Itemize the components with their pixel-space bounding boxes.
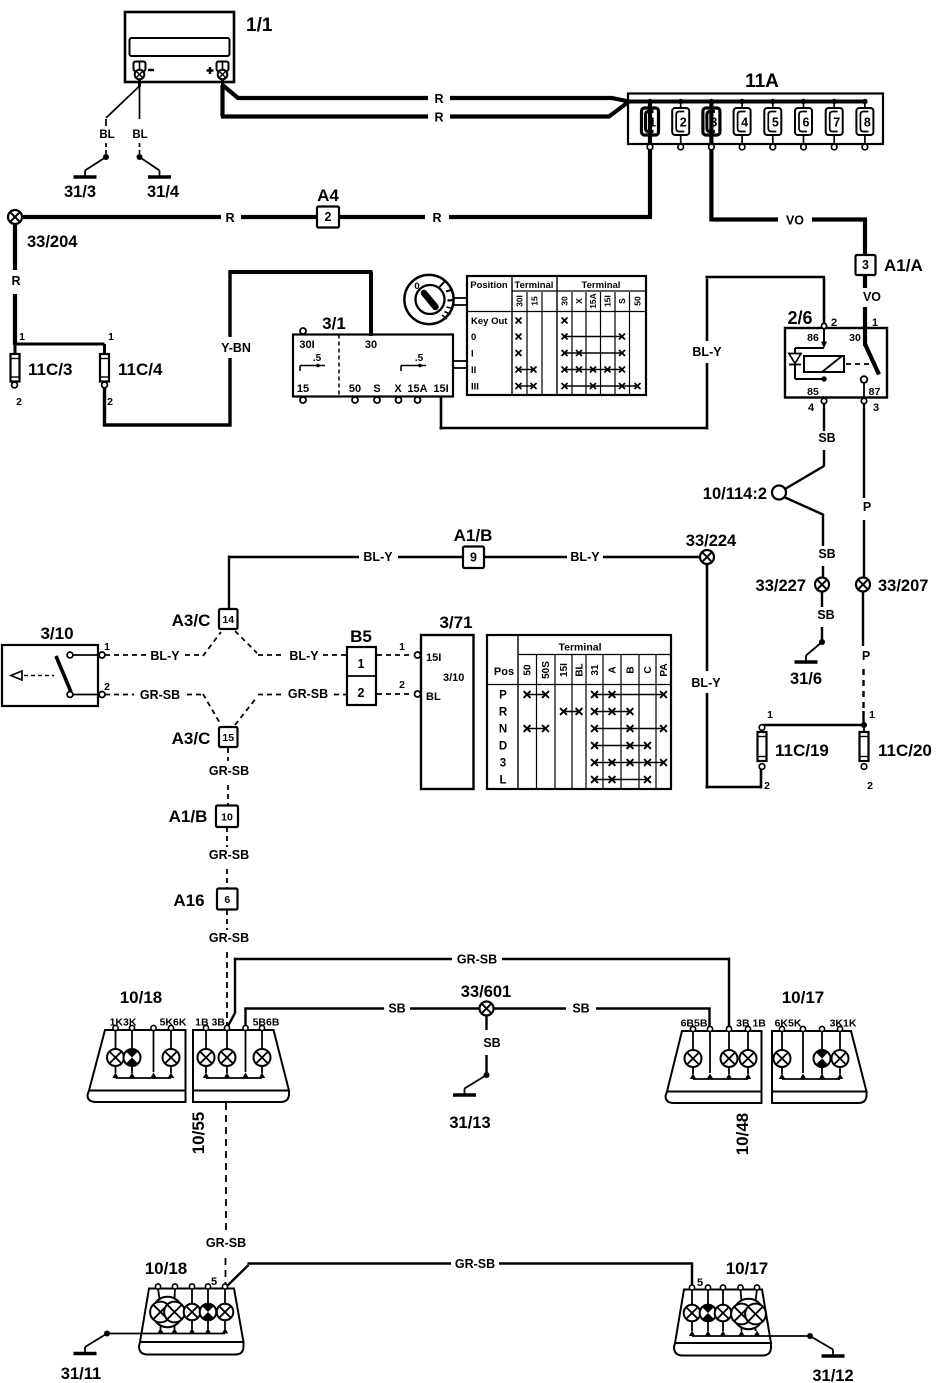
lamp 5 in rear 10/18 [217, 1304, 234, 1321]
lamp 3 in rear 10/17 [715, 1305, 732, 1322]
fuse 11C/4 [100, 331, 163, 408]
lamp 1 in rear 10/17 [684, 1305, 701, 1322]
svg-text:VO: VO [863, 290, 881, 304]
wire GR-SB 10/55 down to rear 10/18 (dashed) [206, 1103, 246, 1285]
svg-text:11C/3: 11C/3 [28, 360, 72, 379]
svg-text:6: 6 [224, 894, 230, 906]
connector A3/C pin 15 [172, 727, 238, 748]
svg-text:.5: .5 [415, 353, 424, 364]
fuse 6 in 11A [795, 99, 812, 150]
svg-text:GR-SB: GR-SB [455, 1257, 495, 1271]
svg-text:31/4: 31/4 [147, 183, 180, 201]
svg-text:10/48: 10/48 [733, 1113, 752, 1156]
svg-text:86: 86 [807, 332, 819, 344]
svg-text:SB: SB [388, 1002, 405, 1016]
ground 31/3 [64, 154, 109, 201]
svg-text:30: 30 [365, 339, 377, 351]
svg-text:1: 1 [649, 116, 656, 130]
svg-text:1: 1 [358, 657, 365, 671]
svg-text:11A: 11A [745, 71, 779, 92]
svg-text:1: 1 [108, 331, 114, 343]
svg-text:X: X [394, 383, 402, 395]
fuse 1 in 11A [642, 99, 659, 150]
svg-text:33/601: 33/601 [461, 983, 511, 1001]
svg-text:2: 2 [107, 396, 113, 408]
svg-text:10/17: 10/17 [782, 988, 825, 1007]
svg-text:1: 1 [872, 317, 878, 329]
svg-text:2: 2 [104, 681, 110, 693]
wire GR-SB linking rear clusters [225, 1257, 693, 1288]
svg-text:1: 1 [399, 641, 405, 653]
svg-text:15A: 15A [407, 383, 427, 395]
svg-text:Y-BN: Y-BN [221, 341, 251, 355]
svg-text:BL-Y: BL-Y [150, 649, 180, 663]
twin lamp housing in rear 10/17 [733, 1299, 763, 1329]
svg-text:SB: SB [483, 1036, 500, 1050]
svg-text:SB: SB [818, 431, 835, 445]
svg-text:31/11: 31/11 [61, 1365, 101, 1383]
svg-text:15: 15 [530, 296, 540, 306]
svg-text:0: 0 [414, 281, 419, 292]
wire VO fuse 3 to relay via A1/A [711, 214, 881, 329]
svg-text:S: S [373, 383, 380, 395]
svg-text:2: 2 [16, 396, 22, 408]
svg-text:30I: 30I [299, 339, 314, 351]
battery 1/1 [125, 12, 273, 87]
svg-text:11C/20: 11C/20 [878, 741, 932, 760]
wire R from 33/204 down [11, 224, 20, 345]
svg-text:5: 5 [211, 1276, 217, 1288]
svg-text:P: P [863, 500, 871, 514]
svg-text:P: P [499, 690, 507, 702]
svg-text:BL-Y: BL-Y [570, 550, 600, 564]
svg-text:31/3: 31/3 [64, 183, 96, 201]
gear selector 3/71 [421, 613, 474, 789]
lamp cluster 10/18 housing [88, 988, 187, 1102]
connector A3/C pin 14 [172, 609, 238, 630]
lamp 3 in rear 10/18 [184, 1304, 201, 1321]
svg-text:BL: BL [132, 129, 147, 141]
svg-text:3/10: 3/10 [443, 672, 464, 684]
lamp 1B in 10/55 [198, 1049, 215, 1066]
svg-text:33/207: 33/207 [878, 577, 928, 595]
svg-text:.5: .5 [313, 353, 322, 364]
wire R battery plus upper [223, 85, 630, 106]
splice 33/207 [856, 577, 928, 595]
ground 31/11 [61, 1331, 110, 1383]
svg-text:GR-SB: GR-SB [206, 1236, 246, 1250]
svg-text:Pos: Pos [494, 666, 514, 678]
wire BL-Y 3/10 pin1 to B5 pin1 (dashed) [105, 631, 346, 663]
svg-text:50: 50 [523, 664, 534, 676]
svg-text:BL-Y: BL-Y [363, 550, 393, 564]
lamp cluster 10/48 housing [666, 1018, 767, 1156]
svg-text:33/227: 33/227 [756, 577, 806, 595]
svg-text:15A: 15A [588, 293, 598, 309]
fuse 11C/20 [860, 709, 932, 792]
svg-text:3: 3 [710, 116, 717, 130]
wire GR-SB A1/B:10 to A16:6 (dashed) [209, 827, 249, 888]
svg-text:11C/19: 11C/19 [775, 741, 829, 760]
fuse 3 in 11A [703, 99, 720, 150]
svg-text:A16: A16 [173, 891, 204, 910]
svg-text:D: D [499, 741, 507, 753]
connector 10/114:2 [703, 485, 786, 503]
lamp 1 in rear 10/18 [150, 1302, 171, 1323]
lamp 2 in rear 10/18 [164, 1302, 185, 1323]
svg-text:N: N [499, 724, 507, 736]
wire SB to ground 31/6 [817, 592, 834, 642]
svg-text:2: 2 [867, 780, 873, 792]
wire SB relay pin 4 down [785, 404, 836, 489]
svg-text:A1/B: A1/B [169, 807, 208, 826]
splice 33/601 [461, 983, 511, 1016]
svg-text:31/6: 31/6 [790, 670, 822, 688]
svg-text:5B6B: 5B6B [253, 1017, 280, 1029]
wire P to fuse 11C/20 [862, 592, 870, 726]
svg-text:1: 1 [19, 331, 25, 343]
svg-text:Terminal: Terminal [515, 280, 554, 291]
lamp 6B in 10/48 [685, 1050, 702, 1067]
lamp 6K in 10/18 [163, 1049, 180, 1066]
svg-text:3: 3 [862, 258, 869, 272]
svg-text:A: A [608, 666, 619, 673]
wire link 11C/19 - 11C/20 [762, 722, 867, 728]
wire SB to splice 33/227 [784, 497, 836, 578]
svg-text:BL-Y: BL-Y [289, 649, 319, 663]
wire B5 pin1 to 3/71 (dashed) [377, 641, 421, 658]
fuse 5 in 11A [764, 99, 781, 150]
lamp 6K in 10/17 [774, 1050, 791, 1067]
svg-text:II: II [471, 365, 476, 376]
svg-text:30I: 30I [515, 295, 525, 307]
svg-text:A1/B: A1/B [454, 526, 493, 545]
svg-text:10/18: 10/18 [145, 1259, 188, 1278]
svg-text:2: 2 [358, 686, 365, 700]
twin lamp housing in rear 10/18 [152, 1297, 182, 1327]
svg-text:SB: SB [818, 547, 835, 561]
svg-text:BL: BL [99, 129, 114, 141]
svg-text:R: R [11, 274, 20, 288]
svg-text:1: 1 [869, 709, 875, 721]
svg-text:A3/C: A3/C [172, 611, 211, 630]
svg-text:R: R [225, 211, 234, 225]
svg-text:0: 0 [471, 332, 476, 343]
ground 31/13 [449, 1072, 490, 1132]
lamp 4 in rear 10/17 [731, 1304, 752, 1325]
svg-text:6K5K: 6K5K [775, 1018, 802, 1030]
svg-text:C: C [643, 666, 654, 673]
svg-text:3K1K: 3K1K [830, 1018, 857, 1030]
table 3/71 positions [487, 635, 671, 789]
svg-text:31/12: 31/12 [812, 1367, 853, 1383]
svg-text:33/204: 33/204 [27, 233, 78, 251]
svg-text:BL-Y: BL-Y [691, 676, 721, 690]
svg-text:GR-SB: GR-SB [140, 688, 180, 702]
svg-text:10/55: 10/55 [189, 1112, 208, 1155]
svg-text:31/13: 31/13 [449, 1114, 490, 1132]
svg-text:Terminal: Terminal [582, 280, 621, 291]
svg-text:R: R [432, 211, 441, 225]
svg-text:5: 5 [697, 1277, 703, 1289]
svg-text:15I: 15I [559, 663, 570, 677]
fuse 7 in 11A [826, 99, 843, 150]
connector A1/B pin 10 [169, 806, 238, 828]
svg-text:A4: A4 [317, 186, 339, 205]
svg-text:P: P [862, 649, 870, 663]
svg-text:15: 15 [222, 732, 234, 744]
wire GR-SB A16:6 down to 10/55 (dashed) [209, 910, 249, 1026]
svg-text:8: 8 [864, 116, 871, 130]
ground 31/12 [807, 1333, 854, 1383]
svg-text:Terminal: Terminal [559, 642, 602, 654]
relay 2/6 [785, 308, 887, 414]
svg-text:30: 30 [560, 296, 570, 306]
svg-text:B5: B5 [350, 627, 372, 646]
fuse 11C/19 [758, 709, 829, 792]
ground 31/4 [137, 154, 180, 201]
svg-text:1: 1 [767, 709, 773, 721]
svg-text:3: 3 [873, 402, 879, 414]
wire branch to 11C/4 [15, 343, 105, 346]
svg-text:31: 31 [590, 664, 601, 676]
wire fuse 1 output (thick) [648, 102, 652, 218]
svg-text:7: 7 [833, 116, 840, 130]
svg-text:X: X [574, 298, 584, 304]
svg-text:33/224: 33/224 [686, 532, 737, 550]
wire stubs switch 3/1 to table [453, 361, 467, 368]
svg-text:PA: PA [659, 663, 670, 676]
splice 33/204 [8, 210, 78, 251]
svg-text:3/1: 3/1 [322, 314, 346, 333]
lamp 2 in rear 10/17 (dual filament) [700, 1305, 717, 1322]
ignition key symbol [404, 275, 454, 324]
svg-text:B: B [626, 666, 637, 673]
lamp 6B in 10/55 [254, 1049, 271, 1066]
lamp 1K in 10/17 [832, 1050, 849, 1067]
svg-text:GR-SB: GR-SB [457, 953, 497, 967]
connector A1/B pin 9 [454, 526, 493, 568]
svg-text:10/17: 10/17 [726, 1259, 769, 1278]
wire fuse 3 output (thick) [709, 102, 713, 222]
connector A4 pin 2 [317, 186, 339, 228]
wire GR-SB 3/10 pin2 to B5 pin2 (dashed) [105, 687, 346, 725]
wire P relay pin 3 down [863, 404, 871, 578]
wire R battery plus lower [221, 85, 629, 125]
svg-text:R: R [499, 707, 508, 719]
svg-text:50S: 50S [541, 661, 552, 679]
wire Y-BN 11C/4 to ignition switch 30 [103, 271, 373, 427]
splice 33/227 [756, 577, 829, 595]
svg-text:I: I [471, 349, 474, 360]
svg-text:1B 3B: 1B 3B [195, 1017, 225, 1029]
ignition switch 3/1 [293, 314, 453, 403]
svg-text:10/114:2: 10/114:2 [703, 485, 767, 503]
svg-text:15: 15 [297, 383, 309, 395]
svg-text:L: L [499, 775, 506, 787]
svg-text:4: 4 [741, 116, 748, 130]
svg-text:1/1: 1/1 [246, 15, 273, 36]
wire BL-Y vertical [691, 279, 722, 789]
svg-text:15I: 15I [603, 295, 613, 307]
lamp 3K in 10/17 (dual filament) [814, 1050, 831, 1067]
svg-text:3B 1B: 3B 1B [736, 1018, 766, 1030]
svg-text:3/10: 3/10 [40, 624, 73, 643]
lamp 4 in rear 10/18 (dual filament) [200, 1304, 217, 1321]
lamp cluster 10/55 housing [189, 1017, 289, 1155]
svg-text:30: 30 [849, 332, 861, 344]
svg-text:2: 2 [680, 116, 687, 130]
svg-text:14: 14 [222, 614, 234, 626]
connector A1/A pin 3 [856, 255, 923, 275]
wire battery minus to 31/4 (BL) [132, 86, 147, 154]
wire GR-SB A3/C:15 down (dashed) [209, 748, 249, 805]
svg-text:SB: SB [817, 608, 834, 622]
svg-text:GR-SB: GR-SB [288, 687, 328, 701]
splice 33/224 [686, 532, 737, 564]
wire battery minus to 31/3 (BL) [99, 86, 139, 154]
svg-text:GR-SB: GR-SB [209, 848, 249, 862]
fuse 2 in 11A [672, 99, 689, 150]
svg-text:2: 2 [399, 679, 405, 691]
svg-text:GR-SB: GR-SB [209, 764, 249, 778]
rear lamp cluster 10/18 housing [107, 1259, 244, 1355]
svg-text:R: R [434, 111, 443, 125]
lamp 5 in rear 10/17 [745, 1304, 766, 1325]
lamp 1B in 10/48 [740, 1050, 757, 1067]
svg-text:15I: 15I [433, 383, 448, 395]
svg-text:2: 2 [325, 210, 332, 224]
svg-text:6: 6 [803, 116, 810, 130]
lamp 1K in 10/18 [107, 1049, 124, 1066]
fuse box 11A [628, 71, 883, 144]
wire B5 pin2 to 3/71 (dashed) [377, 679, 421, 697]
svg-text:4: 4 [808, 402, 815, 414]
table ignition positions [467, 276, 646, 395]
svg-text:85: 85 [807, 386, 819, 398]
svg-text:2: 2 [831, 317, 837, 329]
svg-text:III: III [471, 382, 479, 393]
svg-text:3: 3 [500, 758, 506, 770]
svg-text:A1/A: A1/A [884, 256, 923, 275]
svg-text:R: R [434, 92, 443, 106]
wire BL-Y via A1/B:9 to splice 33/224 [229, 550, 701, 610]
svg-text:5: 5 [772, 116, 779, 130]
svg-text:15I: 15I [426, 652, 441, 664]
svg-text:2: 2 [764, 780, 770, 792]
wire stubs key symbol to table [454, 298, 468, 305]
rear lamp cluster 10/17 housing [674, 1259, 810, 1356]
svg-text:50: 50 [349, 383, 361, 395]
svg-text:BL-Y: BL-Y [692, 345, 722, 359]
svg-text:A3/C: A3/C [172, 729, 211, 748]
wire BL-Y to fuse 11C/19 [706, 769, 763, 789]
svg-text:50: 50 [633, 296, 643, 306]
fuse 4 in 11A [734, 99, 751, 150]
svg-text:S: S [617, 298, 627, 304]
svg-text:BL: BL [575, 663, 586, 676]
fuse 11C/3 [11, 331, 73, 408]
svg-text:10/18: 10/18 [120, 988, 163, 1007]
wire SB lamp clusters to ground switch 33/601 [244, 1002, 710, 1029]
svg-text:11C/4: 11C/4 [118, 360, 163, 379]
wire GR-SB to 10/48 terminal 3B [228, 953, 732, 1031]
lamp 3K in 10/18 (dual filament) [124, 1049, 141, 1066]
svg-text:10: 10 [221, 811, 233, 823]
svg-text:BL: BL [426, 691, 441, 703]
svg-text:9: 9 [470, 550, 477, 564]
fuse 8 in 11A [856, 99, 873, 150]
svg-text:1: 1 [104, 641, 110, 653]
wire from 3/1 terminal 15I [440, 397, 709, 430]
connector B5 [347, 627, 376, 705]
svg-text:Key Out: Key Out [471, 316, 508, 327]
svg-text:GR-SB: GR-SB [209, 931, 249, 945]
ground 31/6 [790, 639, 825, 688]
svg-text:3/71: 3/71 [439, 613, 472, 632]
wire BL-Y to relay pin 2 [706, 277, 826, 324]
lamp 3B in 10/55 [219, 1049, 236, 1066]
svg-text:SB: SB [572, 1002, 589, 1016]
wire SB 33/601 to ground [483, 1016, 500, 1074]
lamp cluster 10/17 housing [772, 988, 867, 1103]
wire R from 33/204 to fuse 1 via A4 [21, 211, 652, 225]
svg-text:VO: VO [786, 214, 804, 228]
svg-text:87: 87 [869, 386, 881, 398]
svg-text:2/6: 2/6 [787, 308, 812, 328]
connector A16 pin 6 [173, 889, 237, 911]
lamp 3B in 10/48 [721, 1050, 738, 1067]
svg-text:Position: Position [470, 280, 508, 291]
switch 3/10 [2, 624, 110, 706]
